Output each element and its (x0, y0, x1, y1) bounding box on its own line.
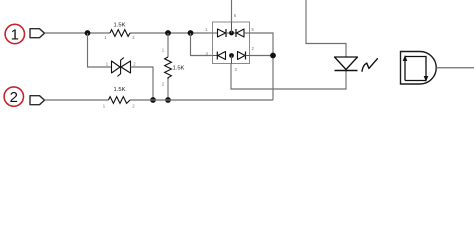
bridge node bottom center (229, 53, 234, 58)
svg-text:2: 2 (10, 89, 18, 106)
wire fork down to bridge pin 4 (191, 33, 213, 56)
wire junction A down to TVS (88, 33, 112, 67)
wire top row right of R1 (130, 32, 213, 34)
junction C (165, 30, 171, 36)
output buffer (D-shaped body) (401, 52, 437, 85)
resistor 1.5K (bottom) (103, 87, 136, 109)
resistor 1.5K (vertical) (162, 33, 185, 100)
bridge diode D2 (top-right, points left) (236, 29, 250, 37)
svg-text:1.5K: 1.5K (173, 66, 185, 72)
bridge stub to pin 6 (231, 22, 233, 33)
output wire (436, 67, 474, 69)
wire bridge pin 5 over to right vertical (250, 33, 274, 100)
AC squiggle (362, 59, 377, 71)
resistor 1.5K (top) (104, 23, 135, 41)
LED (opto emitter) (335, 57, 358, 71)
junction A (85, 30, 91, 36)
terminal pin 1 (30, 29, 45, 38)
svg-text:1.5K: 1.5K (114, 23, 126, 29)
bridge stub to pin 3 (231, 56, 233, 64)
junction D (165, 97, 171, 103)
wire bridge pin 3 down and right to LED cathode (231, 64, 346, 90)
wire TVS to bottom row (131, 67, 154, 100)
bridge diode D3 (bottom-left, points left) (213, 52, 226, 60)
wire bridge pin 6 to top edge (231, 0, 233, 22)
bridge node top center (229, 31, 234, 36)
bridge pin labels (205, 13, 255, 72)
junction E (bridge left fork) (188, 30, 194, 36)
svg-text:1.5K: 1.5K (114, 87, 126, 93)
bridge diode D4 (bottom-right, points right) (238, 52, 250, 60)
node 2 marker (red circle) (4, 87, 23, 106)
wire top row left (45, 32, 111, 34)
wire bottom row right of R3 (130, 99, 273, 101)
junction B (150, 97, 156, 103)
pulse symbol inside buffer (403, 55, 429, 82)
diode bridge outline (213, 22, 250, 64)
wire bottom row left (45, 99, 109, 101)
node 1 marker (red circle) (5, 24, 24, 43)
wire bridge pin 2 (250, 55, 274, 57)
junction F (270, 53, 276, 59)
bridge diode D1 (top-left, points right) (213, 29, 237, 37)
TVS bidirectional suppressor diode (106, 58, 137, 77)
wire top right entry down to LED anode (306, 0, 346, 57)
terminal pin 2 (30, 96, 45, 105)
svg-text:1: 1 (11, 26, 19, 43)
